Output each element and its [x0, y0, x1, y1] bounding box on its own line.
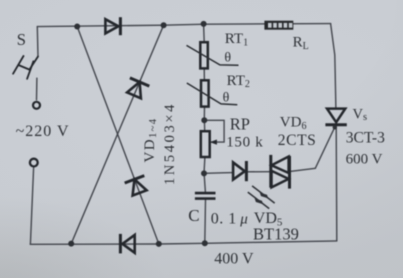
thyristor VS — [325, 109, 346, 125]
light arrows at triac — [248, 186, 275, 209]
svg-text:2CTS: 2CTS — [278, 132, 317, 149]
wire triac to bend — [290, 168, 315, 171]
junction node top RT — [201, 21, 207, 27]
terminal circle lower — [30, 159, 38, 167]
wire bend to thyristor cathode node — [315, 127, 334, 168]
wire RT1 to RT2 — [203, 68, 205, 80]
wire RT2 to node — [203, 107, 205, 121]
svg-text:600 V: 600 V — [346, 151, 383, 167]
svg-text:400 V: 400 V — [214, 250, 254, 267]
wire capacitor to bottom rail — [204, 200, 207, 244]
wire RP wiper loop — [204, 120, 224, 142]
svg-text:3CT-3: 3CT-3 — [346, 130, 385, 147]
wire switch stub — [36, 78, 38, 100]
svg-text:S: S — [17, 30, 26, 49]
svg-text:150 k: 150 k — [226, 134, 263, 150]
svg-text:RP: RP — [230, 114, 250, 133]
svg-text:VD1~4: VD1~4 — [142, 118, 159, 163]
wire node2 to capacitor — [204, 173, 205, 192]
svg-text:0. 1μ: 0. 1μ — [211, 210, 249, 227]
junction node top-left — [74, 24, 80, 30]
wire VD6 to triac — [247, 171, 270, 173]
wire bottom rail — [30, 241, 337, 244]
junction node bottom-mid — [156, 241, 162, 247]
svg-text:RL: RL — [293, 35, 309, 52]
svg-text:RT2: RT2 — [227, 73, 250, 90]
wire middle vertical top — [203, 24, 206, 42]
wire switch drop — [36, 27, 39, 57]
svg-text:C: C — [188, 206, 199, 225]
wire diagonal A — [77, 27, 159, 244]
wire right rail lower — [335, 125, 338, 240]
junction node2 RP bottom — [201, 170, 207, 176]
svg-text:BT139: BT139 — [253, 224, 299, 243]
wire diagonal B — [71, 25, 163, 244]
diode VD1 top rail — [105, 17, 120, 35]
svg-text:~220 V: ~220 V — [16, 123, 70, 140]
diode VD3 on diagonal A — [125, 176, 147, 196]
wire right rail upper — [331, 24, 336, 109]
triac VD5 — [271, 155, 290, 189]
wire lower terminal drop — [30, 168, 33, 244]
svg-text:Vs: Vs — [353, 106, 368, 123]
diode VD6 — [233, 161, 246, 181]
wire RP to node2 — [203, 157, 206, 173]
resistor RL — [264, 21, 293, 30]
junction node thyristor gate — [333, 125, 337, 129]
switch S blade — [13, 56, 38, 79]
thermistor RT2 — [187, 80, 238, 106]
wire top rail — [37, 24, 330, 27]
junction node bottom cap — [202, 240, 208, 246]
junction node RP top — [201, 117, 207, 123]
diode VD4 bottom rail — [120, 234, 134, 254]
junction node top-mid — [161, 22, 167, 28]
wire node to RP — [203, 120, 205, 131]
capacitor C — [195, 193, 216, 199]
junction node bottom-left — [68, 241, 74, 247]
svg-text:VD6: VD6 — [280, 115, 307, 132]
potentiometer RP — [201, 131, 210, 157]
diode VD2 on diagonal B — [127, 78, 149, 98]
svg-text:θ: θ — [224, 51, 231, 66]
svg-text:1N5403×4: 1N5403×4 — [162, 102, 178, 185]
terminal circle upper — [33, 102, 40, 109]
thermistor RT1 — [187, 42, 239, 68]
svg-text:θ: θ — [223, 90, 230, 105]
svg-text:RT1: RT1 — [225, 31, 248, 48]
wire node2 to VD6 — [204, 172, 233, 175]
RP wiper arrowhead — [210, 140, 217, 145]
